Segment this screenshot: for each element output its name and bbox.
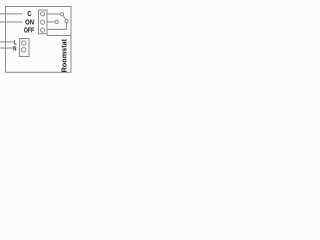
svg-text:Roomstat: Roomstat (59, 38, 68, 72)
svg-text:OFF: OFF (24, 27, 35, 34)
svg-text:N: N (13, 46, 16, 52)
svg-text:C: C (27, 11, 31, 18)
svg-text:ON: ON (25, 19, 34, 26)
svg-text:L: L (14, 40, 17, 46)
